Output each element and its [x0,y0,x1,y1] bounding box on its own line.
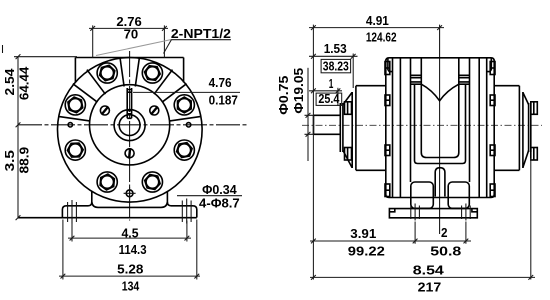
hex bolt 2 [142,63,162,83]
boxed dim 25.4 [316,93,342,105]
casing bolt nub right 3 [490,145,495,156]
right slot hash marks [182,199,191,224]
bolt stub top left [388,58,393,72]
ext lines base slots [415,222,466,244]
left port boss inner [420,58,422,84]
pilot circle [90,85,170,165]
bottom dim line 8.54/217 [310,276,535,278]
casing wall left2 [399,58,401,198]
flange rib line 7 [73,84,98,103]
left view horizontal centerline [18,124,247,126]
rear cap screw top [531,102,538,115]
rear cone [523,93,529,168]
hex bolt 5 [65,140,85,160]
dim 5.28/134 line [59,275,200,277]
shaft [314,115,340,134]
right leg [167,192,196,218]
dim text 3.5 rotated [3,150,17,171]
label 2-NPT1/2 underline [171,39,231,41]
dim text phi0.75 rotated [277,76,291,115]
dim text 64.44 rotated [18,67,32,100]
shaft dia extension lines [305,115,314,134]
dim text 88.9 rotated [18,147,32,174]
hex bolt 6 [97,172,117,192]
svg-text:50.8: 50.8 [430,244,461,258]
keyway hatch marks [127,90,131,114]
svg-text:64.44: 64.44 [18,67,32,100]
dim 1.53/38.23 line [309,55,358,57]
extension top left [14,56,77,58]
casing bolt nub left 2 [385,95,390,106]
dim 2.76/70 extension lines [93,25,165,57]
port block right side [183,58,185,83]
ext line 217 right [530,158,532,280]
V notch [421,84,459,101]
rear carrier face [519,86,523,171]
ext line 25.4 [337,88,339,106]
hex bolt 7 [142,172,162,192]
small hole right [186,123,190,127]
svg-text:Φ0.34: Φ0.34 [202,183,237,197]
svg-text:4.91: 4.91 [366,14,389,28]
bolt stub top right [487,58,492,72]
casing wall right2 [478,58,480,198]
right port boss outer [469,58,471,182]
leader to right port [164,40,172,54]
flange rib line 1 [170,117,201,121]
casing bolt nub left 1 [385,62,390,75]
keyway slot [127,88,131,118]
front carrier face [352,92,356,168]
gear chamber [421,84,459,157]
rear cap plate [529,103,531,152]
right boss ladder bars [459,75,470,84]
flange rib line 5 [120,58,124,87]
shaft dia dim line [307,68,309,161]
front cap screw bottom [345,148,352,161]
left view vertical centerline [129,51,131,221]
svg-text:4.5: 4.5 [122,226,139,240]
casing wall left [392,58,394,198]
seal plate [340,103,343,152]
dim text phi19.05 rotated [292,68,306,114]
casing wall right [486,58,488,198]
svg-text:114.3: 114.3 [119,243,147,257]
right view vertical centerline [439,25,441,234]
dim text 2.54 rotated [3,68,17,95]
rear carrier body [494,86,519,171]
boxed dim 38.23 [321,59,351,72]
base slot marks left [411,204,420,221]
svg-text:8.54: 8.54 [413,263,444,277]
casing bolt nub left 4 [385,184,390,197]
hex bolt 3 [97,63,117,83]
left boss ladder bars [411,75,422,84]
svg-text:2: 2 [441,226,448,240]
left leg [62,192,91,218]
dim 1/25.4 line [309,90,342,92]
base bottom edge [18,217,197,219]
flange rib line 6 [87,70,106,95]
dim 134 extension lines [63,220,197,280]
shaft boss circle [114,110,145,141]
dim 2.76/70 line [89,27,168,29]
slotted screw 2 [100,106,109,115]
ext line shaft end [312,25,314,280]
foot arch [435,168,445,197]
hex bolt 8 [174,140,194,160]
svg-text:0.187: 0.187 [209,93,238,107]
svg-text:3.5: 3.5 [3,150,17,171]
svg-text:4-Φ8.7: 4-Φ8.7 [199,197,240,211]
bottom dim line 3.91/2 [310,240,471,242]
port block left side [74,58,76,83]
ext line 38.23 [352,54,354,89]
svg-text:3.91: 3.91 [350,227,376,241]
chamber shell left [415,84,440,163]
svg-text:124.62: 124.62 [366,31,397,45]
svg-text:Φ0.75: Φ0.75 [277,76,291,115]
casing bolt nub left 3 [385,145,390,156]
svg-text:217: 217 [418,281,442,295]
casing bolt nub right 4 [490,184,495,197]
svg-text:2-NPT1/2: 2-NPT1/2 [171,27,231,41]
bottom tapped hole [124,187,136,199]
dim 4.5 extension lines [72,221,187,242]
leader phi0.34 [177,195,242,197]
hex bolt 4 [65,95,85,115]
small hole left [68,123,72,127]
svg-text:Φ19.05: Φ19.05 [292,68,306,114]
right view horizontal centerline [302,124,542,126]
casing outline [386,58,494,198]
right leg pad [448,182,469,208]
base top edge between legs [92,202,168,207]
svg-text:5.28: 5.28 [117,262,143,276]
rear cap screw bottom [531,148,538,161]
flange rib line 4 [135,58,139,87]
leader 4.76 keyway [133,91,240,93]
svg-text:1: 1 [329,77,334,91]
front carrier body [356,86,386,171]
left leg pad [411,182,434,208]
base slot marks right [462,204,471,221]
drawing corner mark [2,45,4,53]
slotted screw 1 [150,106,159,115]
casing bolt nub right 1 [490,62,495,75]
flange rib line 8 [59,117,89,121]
left vertical dim line [17,57,19,218]
pump body circle [58,58,203,203]
svg-text:1.53: 1.53 [324,42,347,56]
side base plate [389,209,477,218]
svg-text:25.4: 25.4 [318,92,339,106]
dim 4.5/114.3 line [68,237,191,239]
shaft circle [119,115,140,136]
svg-text:38.23: 38.23 [323,59,349,73]
flange rib line 2 [162,84,187,103]
front cone [343,93,352,168]
svg-text:99.22: 99.22 [348,244,385,258]
casing bolt nub right 2 [490,95,495,106]
flange rib line 3 [154,70,173,95]
svg-text:2.54: 2.54 [3,68,17,95]
leader to left port [96,40,172,56]
front cap screw top [345,102,352,115]
svg-text:134: 134 [122,279,140,293]
left port boss outer [410,58,412,182]
slotted screw 3 [125,148,134,159]
dim 4.91/124.62 line [309,27,444,29]
hex bolt 1 [174,95,194,115]
chamber shell right [440,84,466,163]
port block top edge [75,57,183,59]
svg-text:88.9: 88.9 [18,147,32,174]
svg-text:70: 70 [124,27,139,41]
svg-text:4.76: 4.76 [209,76,232,90]
left slot hash marks [68,200,77,224]
right port boss inner [458,58,460,84]
